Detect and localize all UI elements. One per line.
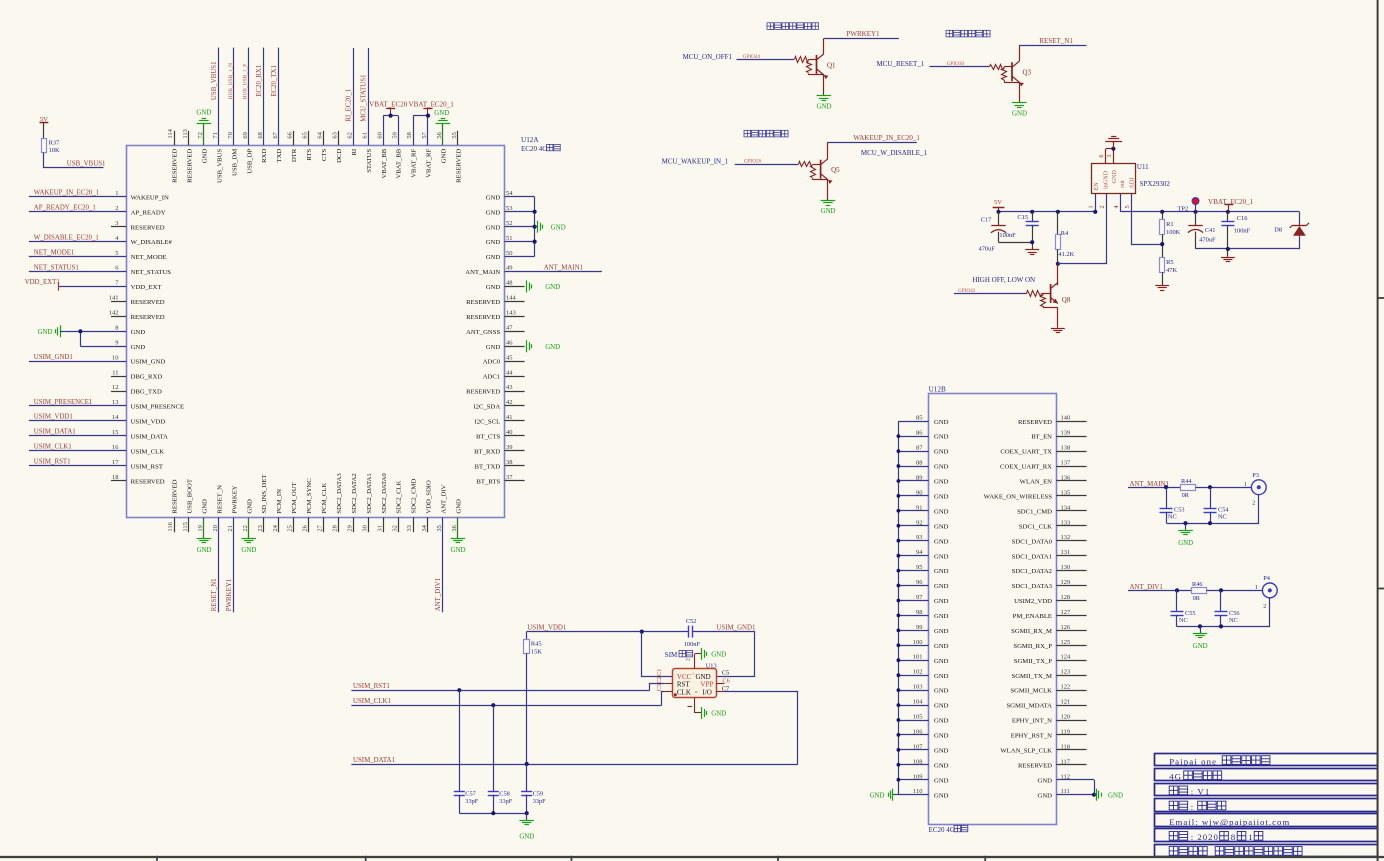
resistor pulldown Q1 [807, 61, 812, 73]
svg-text:86: 86 [916, 430, 923, 437]
wire USIM_CLK1 [351, 705, 661, 707]
svg-text:GND: GND [196, 110, 211, 117]
U12A pin 143 RESERVED [505, 316, 525, 318]
U12A pin 63 DCD [338, 131, 340, 145]
svg-text::: : [1191, 802, 1193, 812]
U13 card detect pin to ground [694, 654, 696, 669]
U12B pin 112 GND [1056, 779, 1094, 781]
svg-text:143: 143 [506, 310, 516, 317]
resistor base series Q5 [799, 162, 813, 167]
ground below C15 [1025, 249, 1039, 251]
svg-text:133: 133 [1061, 519, 1071, 526]
svg-text:TXD: TXD [276, 149, 283, 163]
U12B pin 92 GND [898, 525, 928, 527]
svg-text:NC: NC [1218, 514, 1227, 521]
U12B pin 124 SGMII_TX_P [1056, 660, 1086, 662]
svg-text:49: 49 [506, 265, 513, 272]
capacitor C16 100nF [1227, 212, 1229, 222]
U12B pin 117 RESERVED [1056, 764, 1086, 766]
svg-text:GND: GND [934, 733, 949, 740]
U12B pin 129 SDC1_DATA3 [1056, 585, 1086, 587]
svg-text:USB_VBUS: USB_VBUS [216, 149, 223, 183]
svg-text:W_DISABLE#: W_DISABLE# [131, 239, 173, 246]
U12B pin 120 EPHY_INT_N [1056, 720, 1086, 722]
svg-text:17: 17 [112, 459, 119, 466]
U12B pin 97 GND [898, 600, 928, 602]
svg-text:: V1: : V1 [1191, 787, 1211, 797]
title row 6 date [1169, 831, 1178, 840]
U12B pin 135 WAKE_ON_WIRELESS [1056, 495, 1086, 497]
svg-text:GND: GND [451, 547, 466, 554]
junction U12B GND bus [897, 494, 901, 498]
junction U12B GND bus [897, 509, 901, 513]
svg-text:GPIO26: GPIO26 [744, 159, 762, 165]
svg-text:VBAT_BB: VBAT_BB [396, 148, 403, 178]
svg-text:RESET_N: RESET_N [216, 485, 223, 514]
wire U12B GND pins join [1094, 780, 1096, 795]
U12A pin 5 NET_MODE [29, 256, 126, 258]
svg-text:NET_MODE1: NET_MODE1 [34, 249, 75, 256]
U12B pin 108 GND [898, 764, 928, 766]
U12A pin 52 GND [505, 226, 535, 228]
ground below Q3 [1012, 102, 1027, 104]
U12B pin 131 SDC1_DATA1 [1056, 555, 1086, 557]
svg-text:67: 67 [272, 131, 279, 138]
svg-text:R4: R4 [1061, 230, 1069, 237]
svg-text:SGMII_TX_M: SGMII_TX_M [1012, 673, 1053, 680]
svg-text:119: 119 [1061, 728, 1071, 735]
svg-text:C59: C59 [533, 790, 544, 797]
capacitor C17 470uF electrolytic [998, 212, 1000, 226]
U12A pin 19 GND [203, 517, 205, 538]
svg-text:RI: RI [351, 149, 358, 156]
svg-text:SDC1_DATA3: SDC1_DATA3 [1012, 583, 1053, 590]
U12B pin 111 GND [1056, 794, 1094, 796]
svg-text:NET_STATUS: NET_STATUS [131, 269, 172, 276]
junction 5V rail at C15 [1030, 210, 1034, 214]
junction U12B GND bus [897, 539, 901, 543]
svg-text:GND: GND [1038, 777, 1053, 784]
svg-text:GND: GND [131, 344, 146, 351]
U12A pin 56 GND [442, 123, 444, 145]
section title module wakeup control [744, 130, 751, 137]
svg-text:USIM_CLK1: USIM_CLK1 [34, 444, 72, 451]
svg-text:NC: NC [1168, 514, 1177, 521]
svg-text:0R: 0R [1193, 595, 1201, 602]
svg-text:RESERVED: RESERVED [172, 479, 179, 513]
wire MCU_WAKEUP_IN_1 to base resistor [735, 164, 798, 166]
U12A pin 71 USB_VBUS [218, 48, 220, 146]
junction U12B GND bus [897, 554, 901, 558]
svg-text:W_DISABLE_EC20_1: W_DISABLE_EC20_1 [34, 234, 100, 241]
U12A pin 45 ADC0 [505, 361, 525, 363]
svg-text:D8: D8 [1274, 226, 1282, 233]
junction ANT_MAIN1 at C53 [1164, 485, 1168, 489]
svg-text:ANT_DIV: ANT_DIV [441, 484, 448, 513]
svg-text:18: 18 [112, 474, 119, 481]
svg-text:20: 20 [212, 525, 219, 532]
svg-text:15: 15 [112, 429, 119, 436]
svg-text:61: 61 [361, 132, 368, 139]
junction U12B GND bus [897, 524, 901, 528]
svg-text:VBAT_EC20: VBAT_EC20 [369, 100, 408, 108]
svg-text:87: 87 [916, 445, 923, 452]
svg-text:R1: R1 [1166, 221, 1173, 228]
U12A pin 1 WAKEUP_IN [29, 196, 126, 198]
junction GND bus [533, 210, 537, 214]
U12A pin 66 DTR [293, 131, 295, 145]
U12A pin 43 RESERVED [505, 391, 525, 393]
wire U11 out pin to output rail [1120, 194, 1122, 212]
svg-text:VBAT_BB: VBAT_BB [381, 148, 388, 178]
svg-text:Email: wjw@paipaiiot.com: Email: wjw@paipaiiot.com [1169, 817, 1290, 827]
svg-text:USIM_VDD1: USIM_VDD1 [34, 414, 74, 421]
U12B pin 95 GND [898, 570, 928, 572]
capacitor C53 NC [1166, 487, 1168, 508]
svg-text:VDD_EXT1: VDD_EXT1 [25, 279, 61, 286]
svg-text:57: 57 [421, 131, 428, 138]
resistor pulldown Q5 [811, 166, 816, 178]
junction U12B GND bus [897, 584, 901, 588]
svg-text:USIM_DATA: USIM_DATA [131, 433, 169, 440]
wire USIM_RST1 [351, 690, 649, 692]
svg-text:50: 50 [506, 250, 513, 257]
svg-text:SDC2_DATA3: SDC2_DATA3 [336, 473, 343, 514]
svg-text:Paipai one: Paipai one [1169, 756, 1217, 766]
svg-text:100: 100 [913, 639, 923, 646]
svg-text:GND: GND [934, 449, 949, 456]
junction output rail R1 [1160, 210, 1164, 214]
U12A pin 25 PCM_OUT [293, 517, 295, 532]
svg-text:GND: GND [202, 499, 209, 514]
capacitor C55 NC [1176, 590, 1178, 611]
svg-text:GND: GND [711, 651, 726, 658]
resistor R44 0R [1181, 485, 1196, 491]
svg-text:GND: GND [934, 688, 949, 695]
U12A pin 35 ANT_DIV [442, 517, 444, 612]
U12A pin 3 RESERVED [111, 226, 126, 228]
svg-text:136: 136 [1061, 475, 1072, 482]
svg-text:125: 125 [1061, 639, 1071, 646]
svg-text:HUB_USB_1_N: HUB_USB_1_N [228, 63, 234, 100]
svg-text:100nF: 100nF [999, 232, 1016, 239]
svg-text:70: 70 [227, 132, 234, 139]
U12A pin 114 RESERVED [174, 131, 176, 145]
U12A pin 30 SDC2_DATA1 [368, 517, 370, 532]
junction USIM_CLK1 at C58 [491, 703, 495, 707]
svg-text:BT_RTS: BT_RTS [476, 478, 500, 485]
wire USIM_VDD1 [527, 631, 688, 633]
svg-text:RESERVED: RESERVED [466, 314, 500, 321]
junction U12B GND bus [897, 748, 901, 752]
svg-text:22: 22 [242, 525, 249, 532]
svg-text:GND: GND [934, 523, 949, 530]
svg-text:SDC1_DATA1: SDC1_DATA1 [1012, 553, 1052, 560]
svg-text:55: 55 [451, 132, 458, 139]
svg-text:65: 65 [302, 132, 309, 139]
U12A pin 27 PCM_CLK [323, 517, 325, 532]
svg-text:38: 38 [506, 459, 513, 466]
svg-text:130: 130 [1061, 564, 1071, 571]
junction U12B GND bus [897, 614, 901, 618]
svg-text:33pF: 33pF [465, 798, 478, 805]
svg-text:92: 92 [916, 519, 923, 526]
wire USIM_DATA1 [351, 764, 797, 766]
svg-text:GND: GND [934, 718, 949, 725]
svg-text:USIM_RST1: USIM_RST1 [353, 683, 390, 690]
svg-text:1: 1 [115, 190, 118, 197]
junction R4 bottom EN node [1056, 262, 1060, 266]
svg-text:GND: GND [486, 284, 501, 291]
svg-text:48: 48 [506, 280, 513, 287]
U12B pin 96 GND [898, 585, 928, 587]
svg-text:USIM_GND1: USIM_GND1 [34, 354, 74, 361]
svg-text:66: 66 [287, 131, 294, 138]
U12A pin 59 VBAT_BB [398, 116, 400, 146]
wire output bottom rail [1196, 248, 1300, 250]
ground below U12A pin [451, 538, 466, 540]
svg-text:ANT_GNSS: ANT_GNSS [466, 329, 500, 336]
title block rows [1155, 754, 1378, 766]
svg-text:GPIO44: GPIO44 [743, 54, 761, 60]
svg-text:GND: GND [486, 224, 501, 231]
svg-text:GND: GND [934, 628, 949, 635]
svg-text:4: 4 [1113, 205, 1120, 208]
svg-text:4G: 4G [1169, 772, 1182, 782]
svg-text:GND: GND [545, 284, 560, 291]
svg-text:100nF: 100nF [1234, 228, 1251, 235]
ground left of U12B pin 110 [892, 789, 894, 801]
U12B pin 118 WLAN_SLP_CLK [1056, 749, 1086, 751]
IC U12B body [929, 394, 1057, 825]
ground below Q5 [821, 200, 836, 202]
collector wire Q1 [823, 38, 825, 54]
svg-text:GND: GND [1012, 111, 1027, 118]
svg-text:USIM_DATA1: USIM_DATA1 [34, 429, 76, 436]
svg-text:27: 27 [317, 524, 324, 531]
junction 5V rail at C17 [996, 210, 1000, 214]
ground right of U12B pins 111/112 [1096, 789, 1098, 801]
junction U12B GND bus [897, 673, 901, 677]
U12B pin 88 GND [898, 466, 928, 468]
U12B pin 87 GND [898, 451, 928, 453]
emitter wire Q3 [1019, 82, 1021, 103]
svg-text:10: 10 [112, 354, 119, 361]
svg-text:SPX29302: SPX29302 [1140, 180, 1171, 188]
U12A pin 67 TXD [278, 48, 280, 146]
junction U12B GND bus [897, 464, 901, 468]
svg-text:29: 29 [347, 525, 354, 532]
svg-text:ANT_MAIN: ANT_MAIN [465, 269, 500, 276]
svg-text:MCU_ON_OFF1: MCU_ON_OFF1 [683, 53, 733, 61]
junction U12B GND bus [897, 434, 901, 438]
svg-text:GND: GND [934, 508, 949, 515]
svg-text:NC: NC [1229, 617, 1238, 624]
connector P4 [1262, 583, 1277, 598]
junction pins 8-9 GND [78, 329, 82, 333]
svg-text:121: 121 [1061, 699, 1071, 706]
svg-text:12: 12 [112, 384, 119, 391]
svg-text:C57: C57 [465, 790, 476, 797]
U12A pin 6 NET_STATUS [29, 271, 126, 273]
svg-text:WAKEUP_IN_EC20_1: WAKEUP_IN_EC20_1 [853, 134, 920, 142]
U12A pin 18 RESERVED [111, 480, 126, 482]
svg-text:ADC1: ADC1 [483, 374, 500, 381]
U12B pin 136 WLAN_EN [1056, 480, 1086, 482]
svg-text:C55: C55 [1185, 610, 1196, 617]
svg-text:RESERVED: RESERVED [131, 314, 165, 321]
junction U12B GND bus [897, 778, 901, 782]
junction U12B GND bus [897, 658, 901, 662]
svg-text:93: 93 [916, 534, 923, 541]
svg-text:GND: GND [821, 208, 836, 215]
svg-text:I2C_SDA: I2C_SDA [473, 404, 500, 411]
svg-text:GND: GND [934, 792, 949, 799]
svg-text:41: 41 [506, 414, 513, 421]
svg-text:SGMII_RX_M: SGMII_RX_M [1011, 628, 1052, 635]
frame tick bottom [984, 856, 986, 861]
svg-text:91: 91 [916, 504, 923, 511]
svg-text:116: 116 [167, 521, 174, 531]
svg-text:64: 64 [317, 131, 324, 138]
svg-text:USIM_PRESENCE: USIM_PRESENCE [131, 404, 185, 411]
junction GND bus [533, 225, 537, 229]
svg-text:33: 33 [406, 525, 413, 532]
svg-text:26: 26 [302, 524, 309, 531]
wire U11 ADJ pin to divider [1132, 194, 1163, 245]
svg-text:97: 97 [916, 594, 923, 601]
svg-text:RESERVED: RESERVED [131, 478, 165, 485]
svg-text:MCU_WAKEUP_IN_1: MCU_WAKEUP_IN_1 [662, 158, 729, 166]
svg-text:2: 2 [1099, 205, 1106, 208]
junction USIM_DATA1 at C59 [525, 762, 529, 766]
ground right of U12A pin 48 [526, 280, 528, 292]
U12B pin 126 SGMII_RX_M [1056, 630, 1086, 632]
svg-text:2: 2 [115, 205, 118, 212]
svg-text:GND: GND [934, 673, 949, 680]
wire MCU_RESET_1 to base resistor [930, 66, 990, 68]
svg-text:GND: GND [38, 329, 53, 336]
svg-text:EPHY_RST_N: EPHY_RST_N [1011, 733, 1052, 740]
junction U12B GND pins [1092, 793, 1096, 797]
power symbol VBAT_EC20_1 [427, 108, 429, 115]
junction 5V rail at R4 [1056, 210, 1060, 214]
svg-text:I2C_SCL: I2C_SCL [475, 419, 501, 426]
ground above U12A pin 72 [197, 123, 212, 125]
svg-text:PWRKEY: PWRKEY [231, 485, 238, 513]
U12A pin 8 GND [65, 331, 127, 333]
svg-text:GND: GND [1108, 792, 1123, 799]
U12A pin 21 PWRKEY [233, 517, 235, 612]
svg-text:USIM_VDD1: USIM_VDD1 [527, 625, 567, 632]
svg-text:out: out [1120, 180, 1126, 188]
svg-text:BT_RXD: BT_RXD [474, 448, 500, 455]
title row 4 author [1169, 801, 1178, 810]
ground below output rail [1227, 249, 1229, 257]
svg-text:GND: GND [934, 583, 949, 590]
svg-text:107: 107 [913, 743, 924, 750]
svg-text:2: 2 [1263, 603, 1266, 610]
svg-text:SD_INS_DET: SD_INS_DET [261, 475, 268, 514]
svg-text:1: 1 [1255, 584, 1258, 591]
U12A pin 29 SDC2_DATA2 [353, 517, 355, 532]
U12A pin 69 USB_DP [248, 48, 250, 146]
wire R37 to USB_VBUS1 [44, 153, 104, 168]
U12A pin 32 SDC2_CLK [398, 517, 400, 532]
svg-text:C53: C53 [1174, 507, 1185, 514]
U12A pin 31 SDC2_DATA0 [383, 517, 385, 532]
U12B pin 102 GND [898, 675, 928, 677]
svg-text:62: 62 [347, 132, 354, 139]
svg-text:EC20 4G: EC20 4G [521, 145, 547, 153]
U12B pin 109 GND [898, 779, 928, 781]
U12A pin 26 PCM_SYNC [308, 517, 310, 532]
svg-text:21: 21 [227, 525, 234, 532]
junction divider midpoint [1160, 242, 1164, 246]
U12B pin 123 SGMII_TX_M [1056, 675, 1086, 677]
svg-text:PWRKEY1: PWRKEY1 [847, 30, 881, 38]
section title module reset control [946, 30, 953, 37]
junction bottom rail C16 [1226, 247, 1230, 251]
svg-text:135: 135 [1061, 489, 1071, 496]
svg-text:GND: GND [934, 479, 949, 486]
svg-text:GND: GND [934, 494, 949, 501]
svg-text:46: 46 [506, 339, 513, 346]
U12B pin 101 GND [898, 660, 928, 662]
svg-text:RESERVED: RESERVED [466, 299, 500, 306]
U12A pin 54 GND [505, 196, 535, 198]
svg-text:126: 126 [1061, 624, 1072, 631]
U12B pin 128 USIM2_VDD [1056, 600, 1086, 602]
svg-text:99: 99 [916, 624, 923, 631]
svg-text:58: 58 [406, 132, 413, 139]
junction U12B GND bus [897, 718, 901, 722]
U12A pin 40 BT_CTS [505, 435, 525, 437]
svg-text:GND: GND [934, 658, 949, 665]
svg-text:RESERVED: RESERVED [131, 299, 165, 306]
U12A pin 44 ADC1 [505, 376, 525, 378]
capacitor C58 33pF [493, 705, 495, 791]
U12A pin 38 BT_TXD [505, 465, 525, 467]
svg-text:CTS: CTS [321, 149, 328, 162]
svg-text:RESERVED: RESERVED [172, 149, 179, 183]
svg-text:AP_READY: AP_READY [131, 209, 166, 216]
U12A pin 53 GND [505, 211, 535, 213]
ground below ANT_MAIN1 filter [1185, 523, 1187, 530]
svg-text:GND: GND [241, 547, 256, 554]
U12A pin 22 GND [248, 517, 250, 538]
emitter wire Q1 [823, 75, 825, 96]
transistor Q3 [1011, 62, 1013, 81]
svg-text:USIM_PRESENCE1: USIM_PRESENCE1 [34, 399, 93, 406]
svg-text:71: 71 [212, 132, 219, 139]
svg-text:C5: C5 [722, 670, 729, 677]
ground at SIM bottom [701, 707, 703, 719]
wire R46 to connector P4 [1207, 590, 1263, 592]
svg-text:P3: P3 [1252, 472, 1259, 479]
svg-text:1: 1 [1088, 205, 1095, 208]
U12A pin 62 RI [353, 48, 355, 145]
svg-text:GND: GND [486, 209, 501, 216]
svg-text:60: 60 [376, 132, 383, 139]
svg-text:13: 13 [112, 399, 119, 406]
svg-text:U13: U13 [706, 662, 717, 669]
U12A pin 61 STATUS [368, 48, 370, 145]
U12A pin 142 RESERVED [111, 316, 126, 318]
U12A pin 116 RESERVED [174, 517, 176, 532]
svg-text:69: 69 [242, 132, 249, 139]
svg-text:C17: C17 [981, 216, 992, 223]
